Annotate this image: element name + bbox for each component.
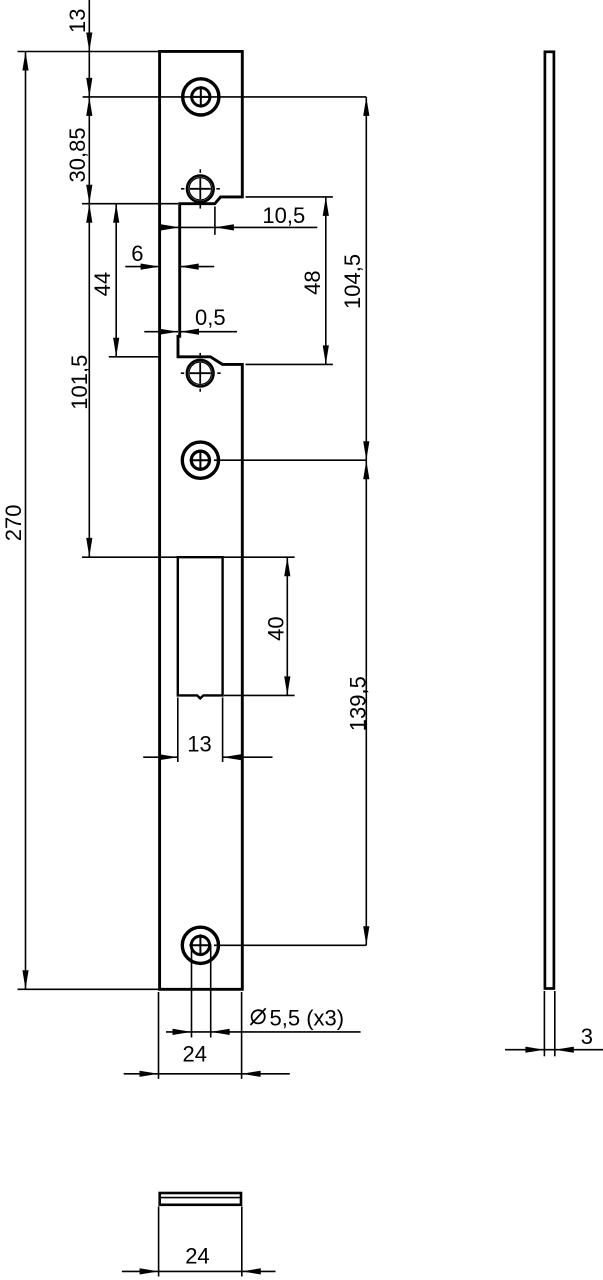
hole H5 [182, 927, 218, 963]
hole H3 [181, 353, 221, 392]
extension line y=695.4 right [224, 694, 295, 696]
extension line y=196.9 right [246, 196, 333, 198]
extension line y=356.8 left [109, 356, 160, 358]
svg-text:0,5: 0,5 [195, 305, 226, 330]
svg-text:24: 24 [185, 1243, 209, 1268]
extension line for 10,5 [214, 207, 216, 235]
extension lines for front width 24 [158, 992, 160, 1079]
svg-text:5,5 (x3): 5,5 (x3) [270, 1006, 345, 1031]
side view plate [545, 52, 554, 989]
dimension 40 line [286, 557, 288, 695]
dimension 6 [125, 266, 159, 268]
diameter symbol [251, 1008, 266, 1025]
latch cutout rectangle [178, 557, 223, 698]
dimension 44 line [115, 204, 117, 357]
extension lines for hole diameter [191, 946, 193, 1038]
dimension 13 (cutout) [143, 756, 178, 758]
extension line bottom (y=989.3) [18, 988, 160, 990]
svg-text:101,5: 101,5 [67, 355, 92, 410]
svg-text:10,5: 10,5 [262, 203, 305, 228]
svg-text:3: 3 [581, 1024, 593, 1049]
hole H4 [182, 442, 218, 478]
svg-text:104,5: 104,5 [340, 254, 365, 309]
extension lines for bottom width 24 [158, 1207, 160, 1277]
dimension 0,5 [144, 331, 178, 333]
plate outline (front view) [160, 51, 243, 989]
extension line y=364.4 right [246, 363, 333, 365]
dimension line x=89.3 (13 / 30,85 / 101,5) [88, 0, 90, 557]
dimension diameter 5,5 line [166, 1031, 361, 1033]
svg-text:6: 6 [131, 241, 143, 266]
svg-text:270: 270 [1, 504, 26, 541]
dimension 48 line [325, 197, 327, 365]
extension lines for thickness 3 [543, 991, 545, 1056]
bottom view plate [160, 1193, 241, 1205]
svg-text:44: 44 [90, 272, 115, 296]
hole H4 center line [214, 459, 366, 461]
dimension 24 line (front) [124, 1073, 290, 1075]
dimension 270 line [25, 52, 27, 990]
extension line y=557.0 (cutout top, full width) [82, 556, 295, 558]
dimension 3 line [505, 1049, 603, 1051]
svg-text:13: 13 [187, 731, 211, 756]
svg-text:13: 13 [65, 9, 90, 33]
dimension 24 line (bottom) [122, 1270, 276, 1272]
bottom view inner line [160, 1197, 241, 1199]
svg-text:139,5: 139,5 [346, 676, 371, 731]
extension lines for cutout width 13 [177, 698, 179, 763]
dimension 10,5 line [162, 226, 317, 228]
hole H1 center line [83, 96, 367, 98]
hole H2 [181, 169, 220, 208]
extension line y=203.7 left [82, 203, 178, 205]
extension line top (y=51.5) [18, 51, 160, 53]
svg-text:24: 24 [183, 1042, 207, 1067]
svg-text:48: 48 [300, 270, 325, 294]
svg-text:40: 40 [264, 616, 289, 640]
dimension line x=366.3 (104,5 / 139,5) [365, 97, 367, 945]
hole H1 [183, 79, 219, 115]
svg-text:30,85: 30,85 [65, 127, 90, 182]
hole H5 center line [214, 944, 366, 946]
